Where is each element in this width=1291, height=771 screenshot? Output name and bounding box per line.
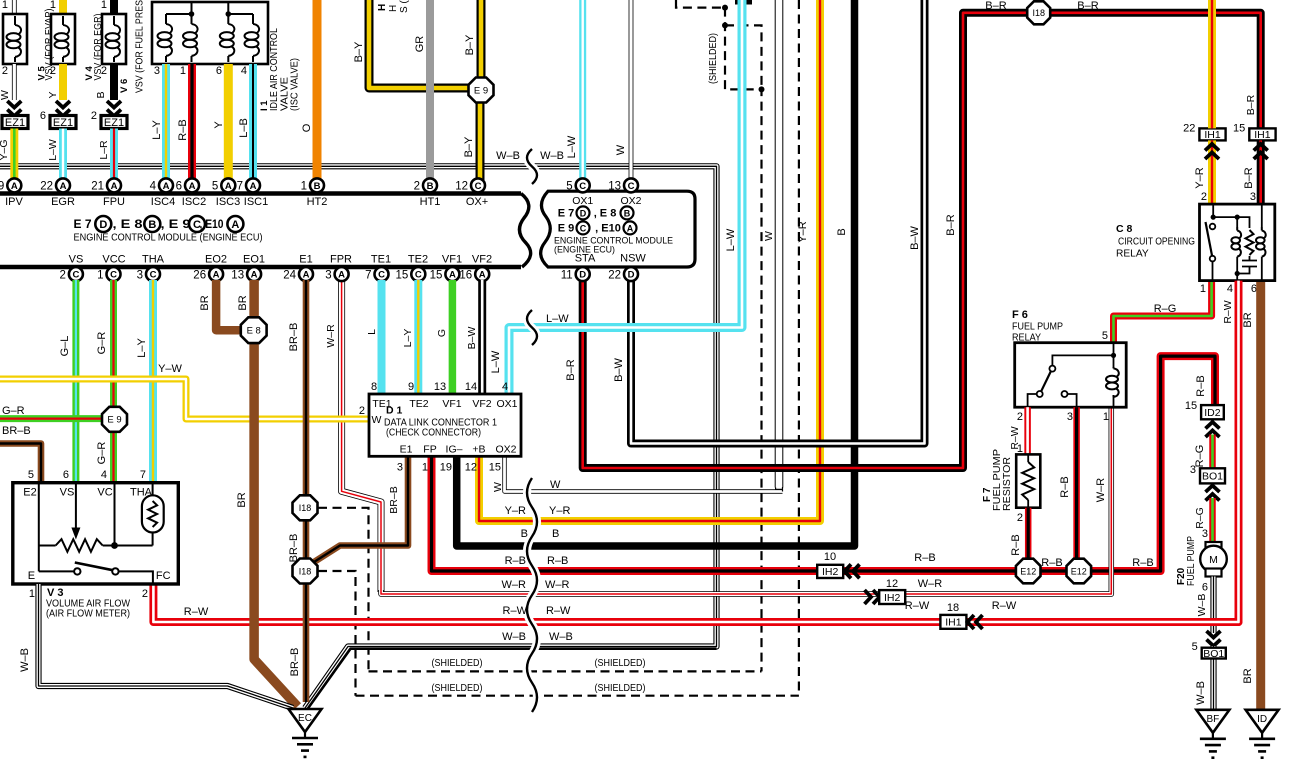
svg-text:W–R: W–R	[1095, 478, 1107, 503]
wire G-R from VCC through splice E9	[110, 280, 117, 483]
svg-text:R–B: R–B	[1195, 375, 1207, 396]
ECU pin ISC2	[176, 178, 199, 192]
svg-text:3: 3	[1202, 528, 1208, 540]
ECU pin OX1	[566, 178, 589, 192]
ECU pin HT1	[414, 178, 437, 192]
svg-text:RELAY: RELAY	[1116, 249, 1149, 260]
svg-text:VF1: VF1	[442, 398, 461, 410]
wire BR-B from D1 E1 to splice I18	[314, 456, 408, 562]
svg-text:W–R: W–R	[545, 579, 570, 591]
svg-text:OX1: OX1	[572, 195, 593, 207]
ECU pin HT2	[301, 178, 324, 192]
svg-text:W: W	[550, 479, 561, 491]
svg-text:FC: FC	[156, 570, 171, 582]
svg-text:15: 15	[1185, 400, 1197, 412]
svg-text:HT2: HT2	[307, 196, 328, 208]
connector IH2 12 (W-R)	[879, 590, 905, 604]
svg-text:A: A	[213, 270, 220, 281]
ground EC	[289, 709, 322, 757]
svg-text:A: A	[225, 181, 232, 192]
svg-text:21: 21	[91, 181, 104, 193]
svg-text:ENGINE CONTROL MODULE (ENGINE: ENGINE CONTROL MODULE (ENGINE ECU)	[74, 233, 263, 244]
svg-text:W: W	[763, 231, 775, 241]
svg-text:VF2: VF2	[472, 254, 492, 266]
svg-text:E: E	[28, 570, 35, 582]
svg-text:B: B	[836, 228, 848, 235]
svg-text:W–B: W–B	[19, 648, 31, 672]
shielded cable boundary row 2	[356, 695, 799, 697]
svg-text:A: A	[231, 219, 239, 231]
arrow into EZ1	[7, 101, 21, 116]
wire W shielded (vertical)	[775, 0, 784, 488]
svg-text:1: 1	[2, 0, 8, 11]
connector EZ1 6 (EGR)	[40, 110, 76, 129]
svg-text:W–B: W–B	[502, 631, 526, 643]
svg-text:ID: ID	[1257, 714, 1267, 725]
ground ID	[1246, 710, 1279, 758]
svg-text:3: 3	[397, 462, 403, 474]
svg-text:B–R: B–R	[985, 0, 1006, 12]
ECU pin TE1	[365, 267, 388, 281]
svg-text:6: 6	[1251, 283, 1257, 295]
svg-text:NSW: NSW	[620, 253, 646, 265]
svg-text:BR: BR	[237, 295, 249, 310]
svg-text:Y–R: Y–R	[797, 221, 809, 242]
svg-text:W–R: W–R	[918, 578, 943, 590]
svg-text:A: A	[189, 181, 196, 192]
svg-text:2: 2	[101, 65, 107, 77]
svg-text:BR–B: BR–B	[288, 323, 300, 352]
svg-text:OX+: OX+	[466, 196, 488, 208]
arrow up ID2	[1206, 422, 1220, 437]
wire W below valve	[12, 64, 17, 100]
svg-text:B–Y: B–Y	[353, 41, 365, 62]
wire L-W to EGR	[59, 129, 67, 181]
svg-text:E 7: E 7	[74, 217, 92, 231]
ECU pin EO2	[193, 267, 223, 281]
svg-text:(CHECK CONNECTOR): (CHECK CONNECTOR)	[386, 427, 481, 439]
wire R-G BO1 to pump	[1209, 498, 1216, 542]
splice E9 (sensor ground)	[102, 407, 127, 432]
svg-text:W–R: W–R	[325, 324, 337, 348]
svg-text:O: O	[301, 123, 313, 132]
ECU pin FPR	[325, 267, 348, 281]
svg-text:A: A	[163, 181, 170, 192]
solenoid valve coil (leftmost VSV)	[3, 14, 27, 64]
svg-text:(SHIELDED): (SHIELDED)	[595, 657, 646, 669]
svg-text:R–B: R–B	[914, 552, 935, 564]
svg-text:Y–R: Y–R	[549, 505, 570, 517]
svg-text:1: 1	[1103, 411, 1109, 423]
connector ID2 15	[1185, 400, 1224, 419]
svg-text:B: B	[148, 219, 156, 231]
svg-text:22: 22	[608, 269, 621, 281]
svg-text:2: 2	[359, 405, 365, 417]
svg-text:E12: E12	[1071, 566, 1087, 576]
svg-text:B–Y: B–Y	[464, 34, 476, 55]
wire B-Y from sensor to splice E9	[477, 0, 486, 77]
wire L-Y from THA to V3	[149, 280, 157, 483]
svg-text:A: A	[627, 224, 634, 234]
svg-text:VF1: VF1	[442, 254, 462, 266]
arrow down BO1 5	[1207, 631, 1221, 646]
svg-text:BF: BF	[1207, 714, 1220, 725]
svg-text:TE2: TE2	[408, 254, 428, 266]
svg-text:E12: E12	[1020, 566, 1036, 576]
svg-text:EZ1: EZ1	[53, 117, 73, 129]
arrow left into IH2 10	[845, 564, 860, 578]
wire Y-R to C8 pin 2	[1208, 0, 1216, 128]
svg-text:B–W: B–W	[613, 357, 625, 381]
svg-text:13: 13	[231, 269, 244, 281]
svg-text:3: 3	[137, 269, 143, 281]
svg-text:A: A	[449, 270, 456, 281]
svg-text:E1: E1	[400, 444, 413, 456]
svg-text:C: C	[415, 270, 422, 281]
ECU pin EGR	[40, 178, 70, 192]
wire R-W from F6 pin2 to F7	[1024, 407, 1031, 454]
shield dashed line right of W wire	[798, 0, 800, 696]
svg-text:B: B	[552, 528, 559, 540]
svg-text:15: 15	[1233, 122, 1245, 134]
svg-text:A: A	[60, 181, 67, 192]
ECU pin ISC3	[212, 178, 235, 192]
svg-text:(SHIELDED): (SHIELDED)	[595, 682, 646, 694]
svg-text:C 8: C 8	[1116, 223, 1133, 235]
svg-text:6: 6	[216, 65, 222, 77]
ECU pin STA	[561, 267, 590, 281]
svg-text:L–W: L–W	[546, 313, 569, 325]
wire Y-R (+B feed)	[479, 0, 820, 521]
svg-text:Y: Y	[213, 121, 225, 129]
ECU pin VF1	[430, 267, 460, 281]
D1 data link connector 1 box	[369, 394, 521, 456]
svg-text:ISC1: ISC1	[244, 196, 268, 208]
ECU pin IPV	[0, 178, 21, 192]
splice I18 upper	[293, 495, 318, 520]
wire Y-R below IH1 22	[1208, 140, 1216, 204]
svg-text:1: 1	[180, 65, 186, 77]
splice E12 right	[1067, 559, 1092, 584]
svg-text:G–L: G–L	[59, 336, 71, 357]
harness break (main)	[527, 478, 537, 712]
wire R-B from F7 to splice E12	[1025, 508, 1032, 558]
svg-text:R–W: R–W	[1222, 300, 1234, 323]
svg-text:C: C	[628, 181, 635, 192]
svg-text:CIRCUIT OPENING: CIRCUIT OPENING	[1118, 237, 1195, 248]
svg-text:16: 16	[459, 269, 472, 281]
svg-text:9: 9	[0, 181, 4, 193]
svg-text:W: W	[0, 90, 11, 100]
wire R-G from C8 pin1 to F6 pin5	[1114, 281, 1212, 343]
svg-text:(SHIELDED): (SHIELDED)	[432, 682, 483, 694]
svg-text:13: 13	[434, 381, 446, 393]
svg-text:D: D	[99, 219, 107, 231]
svg-text:8: 8	[371, 381, 377, 393]
svg-text:THA: THA	[142, 254, 165, 266]
ECU pin OX2	[608, 178, 638, 192]
svg-text:W: W	[492, 482, 504, 492]
svg-text:R–W: R–W	[905, 600, 930, 612]
svg-text:(SHIELDED): (SHIELDED)	[432, 657, 483, 669]
svg-text:W: W	[372, 414, 382, 426]
wire B-Y loop from heated oxygen sensor	[369, 0, 468, 88]
ECU pin VS	[59, 267, 82, 281]
wire W-R from ECU FPR (vertical)	[342, 280, 381, 592]
wire W-R row to fuel pump relay	[381, 407, 1111, 594]
svg-text:, E 8: , E 8	[594, 208, 617, 220]
svg-text:BR–B: BR–B	[2, 425, 31, 437]
wire G-R stub from left edge	[0, 415, 101, 422]
connector BO1 5	[1192, 641, 1226, 660]
wire W from valve pin 1	[12, 0, 17, 14]
svg-text:B: B	[521, 528, 528, 540]
svg-text:IDLE AIR CONTROL: IDLE AIR CONTROL	[269, 28, 280, 111]
svg-text:4: 4	[241, 65, 247, 77]
svg-text:A: A	[11, 181, 18, 192]
svg-text:R–W: R–W	[546, 605, 571, 617]
wire R-G ID2 to BO1	[1209, 435, 1216, 469]
svg-text:2: 2	[414, 181, 420, 193]
svg-text:, E 8: , E 8	[113, 217, 143, 231]
splice I18 (B-R)	[1027, 1, 1050, 24]
svg-text:L–Y: L–Y	[151, 120, 163, 140]
svg-text:A: A	[303, 270, 310, 281]
svg-text:A: A	[479, 270, 486, 281]
svg-text:22: 22	[40, 181, 53, 193]
svg-text:Y–W: Y–W	[158, 363, 182, 375]
svg-text:R–W: R–W	[184, 606, 209, 618]
svg-text:B: B	[95, 91, 107, 98]
svg-text:1: 1	[97, 269, 103, 281]
wire R-B from D1 FP	[432, 356, 1216, 571]
svg-text:EC: EC	[298, 713, 312, 724]
svg-text:IH2: IH2	[884, 592, 901, 604]
svg-text:E 8: E 8	[247, 326, 261, 337]
wire B-R below IH1 15	[1257, 140, 1265, 204]
svg-text:S (: S (	[399, 0, 410, 13]
wire BR-B from E1 through splices I18 to ground EC	[303, 280, 310, 702]
svg-text:W–B: W–B	[496, 150, 520, 162]
shield drain connector (top edge)	[735, 0, 752, 5]
wire Y to ISC3	[224, 64, 233, 180]
svg-text:3: 3	[154, 65, 160, 77]
svg-text:12: 12	[465, 462, 477, 474]
wire W corner join	[776, 487, 783, 492]
wire W-B BO1 to ground BF	[1210, 646, 1216, 710]
svg-text:R–G: R–G	[1154, 303, 1177, 315]
splice E9 (top)	[469, 78, 494, 103]
svg-text:15: 15	[430, 269, 443, 281]
svg-text:7: 7	[237, 181, 243, 193]
svg-text:L–Y: L–Y	[136, 338, 148, 358]
connector IH1 15	[1233, 122, 1276, 141]
svg-text:VCC: VCC	[102, 254, 125, 266]
svg-text:, E10: , E10	[200, 217, 224, 231]
svg-text:R–W: R–W	[503, 605, 528, 617]
svg-text:FUEL PUMP: FUEL PUMP	[1186, 536, 1197, 586]
svg-text:VS: VS	[69, 254, 84, 266]
ECU pin FPU	[91, 178, 121, 192]
svg-text:HT1: HT1	[420, 196, 441, 208]
svg-text:2: 2	[50, 65, 56, 77]
wire B-W from VF2 to D1	[478, 280, 486, 394]
svg-text:12: 12	[886, 578, 898, 590]
svg-text:A: A	[111, 181, 118, 192]
svg-text:RELAY: RELAY	[1012, 332, 1041, 344]
svg-text:B–R: B–R	[945, 214, 957, 235]
svg-text:OX1: OX1	[496, 398, 517, 410]
engine control module (engine ECU) main block	[0, 194, 531, 268]
svg-text:EZ1: EZ1	[104, 117, 124, 129]
svg-text:+B: +B	[472, 444, 485, 456]
svg-text:R–B: R–B	[177, 119, 189, 140]
svg-text:D: D	[579, 270, 586, 281]
solenoid valve V5 VSV (FOR EVAP)	[51, 14, 75, 64]
svg-text:L–W: L–W	[490, 350, 502, 373]
F20 fuel pump motor	[1200, 542, 1227, 577]
wire G-L from VS to V3	[72, 280, 79, 483]
connector EZ1 (IPV)	[2, 116, 28, 129]
svg-text:G: G	[436, 329, 448, 337]
wire BR from EO1 through splice E8 to ground EC	[254, 280, 297, 707]
junction dot shield top	[722, 5, 728, 11]
svg-text:, E 9: , E 9	[161, 217, 191, 231]
ECU pin ISC4	[150, 178, 173, 192]
svg-text:A: A	[338, 270, 345, 281]
svg-text:EZ1: EZ1	[5, 117, 25, 129]
wire W-B horizontal (ECU ground bus)	[0, 166, 717, 708]
wire G from VF1 to D1	[449, 280, 457, 394]
svg-text:C: C	[72, 270, 79, 281]
svg-text:4: 4	[502, 381, 508, 393]
svg-text:15: 15	[396, 269, 409, 281]
svg-text:IH1: IH1	[1204, 129, 1221, 141]
svg-text:14: 14	[465, 381, 477, 393]
svg-text:F 6: F 6	[1012, 309, 1028, 321]
svg-text:H: H	[388, 5, 399, 12]
svg-text:ISC4: ISC4	[151, 196, 175, 208]
svg-text:FP: FP	[423, 444, 436, 456]
ECU pin VCC	[97, 267, 120, 281]
svg-text:1: 1	[101, 0, 107, 11]
svg-text:5: 5	[212, 181, 218, 193]
connector IH1 22	[1183, 122, 1225, 141]
svg-text:B–R: B–R	[1243, 167, 1255, 188]
svg-text:THA: THA	[130, 487, 153, 499]
arrow up IH1 22	[1205, 144, 1219, 159]
arrow up BO1	[1206, 486, 1220, 501]
svg-text:15: 15	[489, 462, 501, 474]
svg-text:R–B: R–B	[1059, 476, 1071, 497]
svg-text:STA: STA	[575, 253, 596, 265]
svg-text:12: 12	[455, 181, 468, 193]
svg-text:2: 2	[1201, 191, 1207, 203]
svg-text:BR: BR	[1242, 312, 1254, 327]
svg-text:1: 1	[301, 181, 307, 193]
svg-text:I18: I18	[299, 566, 312, 576]
svg-text:IG–: IG–	[446, 444, 463, 456]
wire W row to D1 OX2	[505, 456, 783, 491]
ECU pin ISC1	[237, 178, 260, 192]
ECU pin TE2	[396, 267, 426, 281]
svg-text:E 9: E 9	[474, 85, 488, 96]
svg-text:EO2: EO2	[205, 254, 227, 266]
svg-text:R–B: R–B	[1132, 557, 1153, 569]
wire L from TE1 to D1	[378, 280, 386, 394]
svg-text:3: 3	[1190, 464, 1196, 476]
svg-text:5: 5	[1102, 330, 1108, 342]
wire L-R to FPU	[110, 129, 118, 181]
svg-text:7: 7	[140, 469, 146, 481]
solenoid valve V4 VSV (FOR EGR)	[102, 14, 126, 64]
svg-text:, E10: , E10	[595, 223, 621, 235]
svg-text:EO1: EO1	[243, 254, 265, 266]
svg-text:ISC2: ISC2	[182, 196, 206, 208]
svg-text:VSV (FOR FUEL PRES: VSV (FOR FUEL PRES	[135, 0, 146, 93]
svg-text:I18: I18	[299, 503, 312, 513]
svg-text:FPR: FPR	[330, 254, 352, 266]
wire R-B from F6 pin3 to splice E12	[1073, 407, 1080, 558]
C8 circuit opening relay box	[1200, 204, 1275, 281]
arrow into EZ1 (FPU)	[107, 101, 121, 116]
svg-text:6: 6	[1202, 582, 1208, 594]
svg-text:W–R: W–R	[502, 579, 527, 591]
svg-text:TE1: TE1	[371, 254, 391, 266]
svg-text:Y: Y	[47, 91, 59, 98]
F6 fuel pump relay box	[1015, 343, 1126, 408]
connector IH2 10 (R-B)	[817, 565, 843, 578]
svg-text:C: C	[378, 270, 385, 281]
svg-text:22: 22	[1183, 122, 1195, 134]
svg-text:Y–R: Y–R	[505, 505, 526, 517]
wire W-B from V3 E to ground EC	[39, 584, 294, 708]
wire BR-B from left edge to V3 E2	[0, 444, 41, 484]
svg-text:4: 4	[1227, 283, 1233, 295]
svg-text:C: C	[579, 181, 586, 192]
wire R-W overlay (crosses fuel pump W-B)	[1180, 281, 1239, 622]
wire W to OX2	[629, 0, 634, 180]
svg-text:(ISC VALVE): (ISC VALVE)	[290, 58, 301, 111]
svg-text:B–Y: B–Y	[463, 136, 475, 157]
wire L-B to ISC1	[249, 64, 257, 180]
svg-text:IH1: IH1	[945, 617, 962, 629]
wire Y below V5	[59, 64, 67, 100]
connector IH1 18 (R-W)	[940, 615, 966, 629]
arrow up IH1 15	[1254, 144, 1268, 159]
shield dashed from splice I18 lower	[318, 571, 356, 696]
svg-text:2: 2	[142, 588, 148, 600]
svg-text:OX2: OX2	[620, 195, 641, 207]
svg-text:G–R: G–R	[96, 332, 108, 355]
arrow right into IH2 12	[865, 590, 880, 604]
ECU pin THA	[137, 267, 160, 281]
svg-text:9: 9	[408, 381, 414, 393]
ECU right section connector codes	[554, 206, 673, 255]
wire B (IG- ground)	[457, 0, 855, 546]
svg-text:W–B: W–B	[1195, 681, 1207, 705]
svg-text:D: D	[580, 209, 587, 219]
svg-text:BR: BR	[1242, 668, 1254, 683]
connector EZ1 2 (FPU)	[91, 110, 127, 129]
shield dashed box around L-W wire (top)	[725, 8, 762, 672]
ECU connector code row	[74, 216, 263, 244]
V3 volume air flow meter box	[13, 483, 179, 584]
svg-text:M: M	[1209, 554, 1218, 566]
svg-text:D: D	[628, 270, 635, 281]
svg-text:L–R: L–R	[98, 140, 110, 160]
svg-text:7: 7	[365, 269, 371, 281]
